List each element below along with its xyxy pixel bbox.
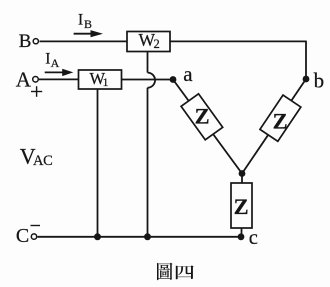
node b junction dot [303,76,310,83]
svg-text:A: A [51,56,60,70]
wire W1 bottom down to C line [97,89,99,237]
terminal C circle [31,234,36,239]
terminal B circle [33,39,38,44]
svg-text:AC: AC [33,153,52,169]
impedance Z2 box (b-branch) [260,95,301,141]
caption glyph 圖 [157,263,172,280]
svg-text:B: B [84,17,92,31]
impedance Z3 box (vertical) [231,183,252,228]
node c junction dot [238,233,245,240]
wire W2 bottom down to hop [147,52,149,73]
terminal A circle [33,77,39,83]
junction dot W1 coil on C line [94,233,101,240]
svg-text:Z: Z [273,109,288,134]
svg-text:Z: Z [234,194,249,219]
impedance Z1 box (a-branch) [181,94,223,140]
svg-text:C: C [16,225,29,247]
svg-text:A: A [16,67,32,91]
caption glyph 四 [176,265,194,279]
wire W2 to corner [170,40,306,42]
wire A line to W1 [39,78,79,80]
wire node a to junction [173,80,242,174]
node a junction dot [170,76,177,83]
delta bottom junction dot [239,170,246,177]
wire hop continues down to C line [147,88,149,237]
svg-text:b: b [314,68,325,92]
minus sign at terminal C [31,225,41,227]
wire Z3 bottom to node c [241,228,243,237]
wattmeter W1 box [79,70,122,89]
svg-text:a: a [183,62,193,86]
junction dot W2 coil on C line [144,233,151,240]
wire corner down to node b [305,41,307,79]
plus sign at terminal A [31,91,42,93]
current IB arrow [74,30,103,37]
wattmeter W2 box [127,32,170,52]
wire C line [38,236,242,238]
wire hop over A line [148,73,156,88]
svg-text:I: I [78,12,83,29]
svg-text:c: c [249,227,258,249]
svg-text:B: B [19,31,32,52]
svg-text:1: 1 [103,77,109,89]
svg-text:2: 2 [154,37,160,51]
wire node b to junction [242,79,306,174]
svg-text:Z: Z [195,104,210,129]
wire junction to Z3 top [241,174,243,184]
current IA arrow [45,69,74,76]
wire B line to W2 [40,40,128,42]
wire W1 to node a [122,79,174,81]
